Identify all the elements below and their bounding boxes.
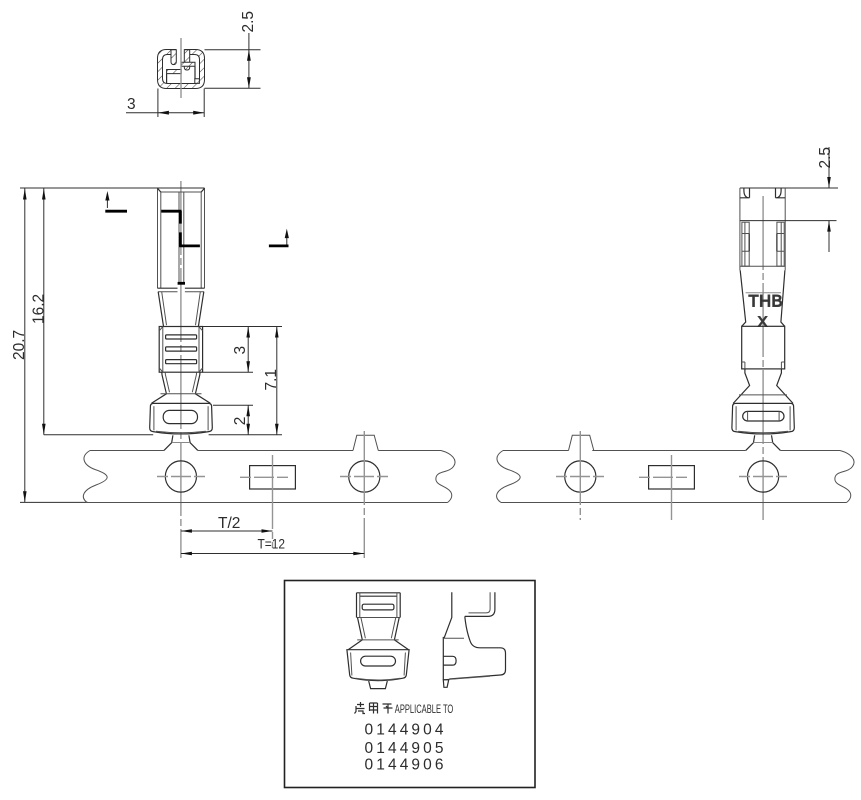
centerline v rect (671, 455, 673, 520)
section mark left bar (105, 210, 127, 213)
DETAIL-BOX (285, 581, 536, 788)
crimp inner side left (153, 406, 155, 430)
centerline hole left (157, 476, 205, 478)
ext line y435 right (209, 434, 282, 436)
detail crimp inner sides (351, 653, 406, 676)
svg-text:2.5: 2.5 (240, 11, 257, 33)
strip bottom edge (501, 502, 847, 504)
svg-text:2.5: 2.5 (817, 147, 834, 169)
strip top edge (503, 450, 840, 452)
ext line top right (205, 49, 261, 51)
detail front taper (348, 618, 408, 650)
section centerline (180, 38, 182, 98)
centerline v right circle (363, 431, 365, 558)
strip tab (569, 435, 594, 450)
neck2 left outer (152, 372, 167, 403)
side neck (733, 369, 793, 404)
side taper left (740, 270, 746, 326)
detail front crimp inner sides (360, 593, 397, 618)
side slot (743, 411, 784, 421)
svg-text:0144906: 0144906 (365, 757, 444, 774)
FRONT-VIEW (11, 181, 289, 558)
top slit opening (176, 47, 184, 57)
box bottom line2 (158, 291, 204, 293)
centerline rect (639, 476, 704, 478)
svg-text:20.7: 20.7 (11, 330, 28, 360)
neck2 left inner (165, 372, 169, 392)
insulation slot (163, 410, 197, 423)
ext line bottom right2 (203, 89, 205, 118)
dimension T=12 (181, 553, 364, 555)
corner block (195, 79, 200, 84)
neck2 right inner (192, 372, 196, 392)
seam line left (178, 192, 180, 282)
neck taper left inner (162, 292, 167, 325)
centerline hole right (340, 476, 389, 478)
centerline rect (240, 476, 305, 478)
crimp step ticks (742, 362, 785, 369)
pilot hole right (748, 461, 779, 492)
crimp inner side right (207, 406, 209, 430)
svg-text:APPLICABLE TO: APPLICABLE TO (395, 702, 454, 716)
LEFT-STRIP (83, 431, 455, 558)
side box left edge (739, 188, 741, 270)
box bottom line1 (158, 287, 205, 289)
side box bottom (740, 265, 785, 267)
ext line y502 (20, 501, 88, 503)
detail side upper right lines (465, 592, 495, 616)
detail crimp inner arc (356, 678, 401, 680)
spring riser line (194, 66, 196, 79)
dimension 2 (247, 405, 249, 435)
SECTION-VIEW (126, 11, 261, 117)
svg-text:THB: THB (749, 293, 784, 311)
section mark body2 (179, 232, 200, 246)
tab flare left (164, 443, 172, 451)
ext line crimp top (203, 326, 282, 328)
spring bar lower (167, 70, 182, 74)
box border (285, 581, 536, 788)
SIDE-VIEW (732, 147, 838, 520)
side taper right (781, 270, 785, 326)
centerline v rect (272, 455, 274, 548)
pilot hole left (565, 461, 596, 492)
svg-text:16.2: 16.2 (30, 294, 47, 324)
receptacle box left edge (157, 188, 159, 288)
detail front crimp top (357, 593, 401, 596)
detail front crimp sides (357, 593, 401, 618)
side wire crimp (742, 326, 785, 369)
box cap line (161, 191, 201, 193)
side crimp inner sides (736, 406, 790, 430)
internal line y221 and ext (740, 220, 837, 222)
section mark left arrow (106, 200, 108, 209)
detail tab (369, 681, 388, 689)
strip left break (497, 451, 521, 503)
strip top edge (90, 450, 441, 452)
dimension 7.1 (276, 327, 278, 435)
section mark right arrow (286, 237, 288, 244)
detail front taper inner (361, 618, 396, 639)
right wing curl (184, 50, 189, 70)
receptacle box right edge (204, 188, 206, 288)
corner chamfer left (158, 188, 161, 192)
svg-text:7.1: 7.1 (263, 369, 280, 391)
box inner right (200, 192, 202, 288)
neck taper left outer (158, 292, 163, 327)
detail insulation crimp (347, 650, 409, 681)
tab right edge (189, 435, 190, 442)
centerline hole right (739, 476, 788, 478)
detail side notch (443, 656, 456, 665)
spring bar upper (181, 62, 195, 66)
tab flare right (190, 443, 198, 451)
insulation crimp inner arc (156, 431, 206, 433)
ext line bottom left (157, 89, 159, 118)
strip right break (835, 451, 854, 503)
side centerline (762, 196, 764, 520)
side crimp inner arc (738, 431, 788, 433)
side box right edge (784, 188, 786, 270)
centerline hole left (556, 476, 604, 478)
detail side mid line (443, 637, 464, 639)
side tab bottom (754, 442, 773, 444)
section mark right bar (269, 244, 289, 247)
corner chamfer right (201, 188, 204, 192)
detail front crimp bottom (357, 617, 401, 619)
crimp inner left (162, 327, 164, 373)
centerline v left circle (579, 431, 581, 520)
dimension 20.7 (24, 189, 26, 503)
ext line y435 left (44, 434, 153, 436)
ext line crimp bottom (203, 371, 253, 373)
side tab (746, 435, 781, 450)
svg-text:0144905: 0144905 (365, 740, 444, 757)
side neck line (739, 394, 787, 396)
ext line y405 (213, 404, 253, 406)
chinese char 1 (355, 702, 366, 714)
crimp corner ticks (159, 327, 202, 372)
neck taper right outer (198, 292, 203, 327)
index rectangle (250, 466, 296, 489)
side insulation crimp (732, 403, 794, 434)
top edge and ext line (20, 187, 205, 189)
dimension 2.5 section (248, 33, 250, 88)
wire crimp outline (159, 327, 202, 373)
crimp slot 2 (166, 347, 197, 351)
svg-text:2: 2 (232, 417, 249, 426)
index rectangle (649, 466, 695, 489)
RIGHT-STRIP (497, 431, 854, 520)
dimension 3 crimp (247, 327, 249, 373)
strip left break (83, 451, 107, 503)
pilot hole left (165, 461, 196, 492)
detail side body (449, 616, 505, 679)
box inner left (160, 192, 162, 288)
svg-text:3: 3 (127, 96, 136, 113)
pilot hole right (349, 461, 380, 492)
detail side bottom line (443, 676, 490, 680)
tab bottom (172, 442, 190, 444)
detail side foot (443, 680, 448, 688)
svg-text:3: 3 (232, 346, 249, 355)
section wall ring hatched (158, 50, 205, 89)
neck taper right inner (196, 292, 201, 325)
chinese char 2 (370, 703, 378, 714)
dimension 3 section (126, 112, 204, 114)
dimension 16.2 (43, 189, 45, 435)
seam bottom mark (178, 282, 185, 285)
detail front slot (362, 604, 394, 610)
strip bottom edge (87, 502, 448, 504)
window right column (777, 222, 784, 266)
detail side upper left line (443, 592, 452, 680)
crimp slot 3 (166, 360, 197, 364)
crimp inner right (198, 327, 200, 373)
lance notch left (740, 188, 750, 198)
strip right break (436, 451, 455, 503)
side top edge and ext (740, 187, 838, 189)
ext line bottom right (205, 87, 261, 89)
window left column (742, 222, 749, 266)
svg-text:X: X (758, 315, 768, 331)
svg-text:T/2: T/2 (218, 515, 240, 532)
insulation crimp outline (150, 403, 213, 434)
crimp slot 1 (166, 335, 197, 339)
section mark body1 (161, 211, 181, 224)
detail front transition line (357, 639, 399, 641)
dimension 2.5 side (828, 147, 830, 188)
tab left edge (172, 435, 173, 442)
terminal centerline (180, 181, 182, 558)
cavity side line (166, 74, 168, 84)
left wing curl (171, 50, 176, 65)
detail slot (361, 656, 396, 666)
strip tab (353, 435, 378, 450)
neck2 right outer (195, 372, 210, 403)
stamp boundary line (746, 292, 781, 294)
side slot end ticks (748, 411, 780, 421)
seam line right (183, 192, 185, 282)
svg-text:T=12: T=12 (258, 537, 286, 552)
chinese char 3 (383, 704, 393, 714)
lance notch right (776, 188, 786, 198)
dimension T/2 (181, 530, 273, 532)
neck2 transition line (161, 393, 202, 395)
